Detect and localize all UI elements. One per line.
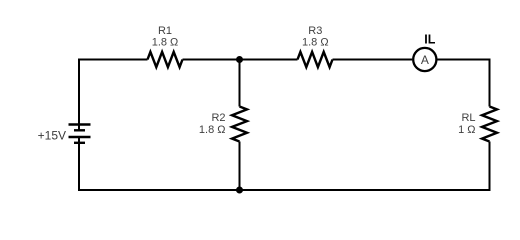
svg-text:R2: R2 — [211, 112, 225, 124]
svg-text:1.8 Ω: 1.8 Ω — [302, 37, 329, 49]
resistor R2 — [232, 107, 247, 142]
svg-text:A: A — [421, 53, 429, 67]
wire left side lower — [78, 137, 80, 191]
ammeter U1 circle — [413, 48, 436, 71]
wire ammeter to top-right corner — [437, 59, 490, 61]
node A junction dot top — [236, 56, 243, 63]
node B junction dot bottom — [236, 187, 243, 194]
svg-text:RL: RL — [461, 112, 475, 124]
wire R3 to ammeter — [333, 59, 413, 61]
wire middle branch upper — [239, 60, 241, 107]
wire middle branch lower — [239, 142, 241, 191]
wire bottom — [78, 189, 491, 191]
svg-text:1.8 Ω: 1.8 Ω — [199, 124, 226, 136]
svg-text:1.8 Ω: 1.8 Ω — [152, 37, 179, 49]
svg-text:R3: R3 — [308, 25, 322, 37]
svg-text:1 Ω: 1 Ω — [458, 124, 475, 136]
resistor R1 — [148, 52, 183, 67]
battery V1 — [69, 125, 91, 143]
wire right side lower — [489, 142, 491, 192]
resistor R3 — [298, 52, 333, 67]
wire left side upper — [78, 59, 80, 131]
svg-text:IL: IL — [424, 33, 435, 47]
wire right side upper — [489, 59, 491, 107]
resistor RL — [482, 107, 497, 142]
wire top-left segment — [79, 59, 148, 61]
svg-text:+15V: +15V — [38, 129, 66, 143]
svg-text:R1: R1 — [158, 25, 172, 37]
wire R1 to node A — [183, 59, 298, 61]
